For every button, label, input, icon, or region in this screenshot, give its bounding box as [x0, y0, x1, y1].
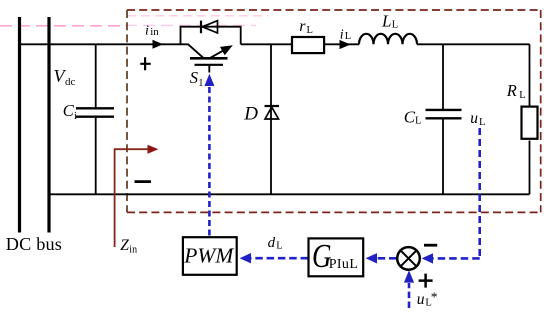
svg-text:in: in — [129, 245, 137, 256]
svg-text:in: in — [150, 26, 159, 38]
svg-text:C: C — [63, 101, 75, 120]
svg-text:L: L — [276, 240, 282, 251]
svg-text:u: u — [470, 110, 478, 127]
svg-text:DC bus: DC bus — [6, 234, 62, 254]
svg-text:L: L — [519, 90, 525, 101]
svg-text:d: d — [268, 235, 276, 251]
svg-text:R: R — [506, 81, 517, 100]
svg-text:dc: dc — [65, 76, 76, 88]
svg-text:L: L — [392, 20, 398, 31]
svg-text:S: S — [190, 68, 198, 87]
svg-text:PWM: PWM — [183, 243, 234, 267]
svg-text:Z: Z — [120, 237, 129, 254]
svg-text:1: 1 — [198, 78, 203, 89]
svg-text:L: L — [415, 116, 421, 127]
svg-text:PIuL: PIuL — [329, 257, 359, 272]
svg-text:i: i — [145, 24, 149, 39]
svg-text:L: L — [345, 31, 351, 42]
svg-text:r: r — [299, 18, 306, 35]
svg-text:C: C — [404, 107, 416, 126]
svg-text:L: L — [381, 12, 391, 31]
svg-text:i: i — [340, 27, 344, 42]
svg-text:D: D — [243, 104, 258, 125]
svg-text:L: L — [307, 25, 313, 36]
svg-text:*: * — [431, 290, 438, 305]
svg-text:L: L — [479, 117, 485, 128]
svg-text:i: i — [74, 111, 77, 122]
svg-text:u: u — [417, 291, 425, 308]
